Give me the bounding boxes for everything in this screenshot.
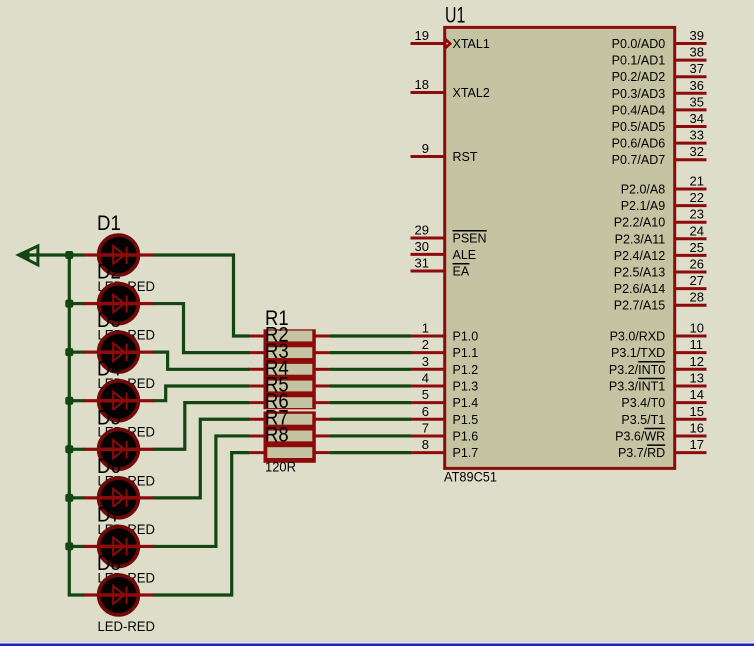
pin 32 (P0.7/AD7) stub — [675, 158, 707, 161]
svg-text:P0.3/AD3: P0.3/AD3 — [612, 87, 666, 101]
EA overline — [453, 263, 470, 265]
svg-text:P0.2/AD2: P0.2/AD2 — [612, 70, 666, 84]
svg-text:38: 38 — [690, 45, 704, 60]
wire bus to LED D6 — [69, 496, 84, 499]
pin 2 (P1.1) stub — [411, 351, 445, 354]
resistor R4 right lead — [315, 384, 331, 387]
svg-text:P1.4: P1.4 — [453, 396, 479, 410]
svg-text:P0.4/AD4: P0.4/AD4 — [612, 103, 666, 117]
junction node on bus at D7 — [65, 542, 73, 550]
svg-text:34: 34 — [690, 111, 704, 126]
svg-text:P2.3/A11: P2.3/A11 — [615, 232, 666, 246]
LED D7 symbol — [83, 527, 154, 567]
wire LED D7 cathode to resistor R7 — [153, 436, 249, 546]
svg-text:4: 4 — [422, 370, 429, 385]
svg-text:35: 35 — [690, 94, 704, 109]
svg-text:16: 16 — [690, 420, 704, 435]
svg-text:P1.1: P1.1 — [453, 346, 479, 360]
svg-text:33: 33 — [690, 128, 704, 143]
svg-text:8: 8 — [422, 437, 429, 452]
wire LED D2 cathode to resistor R2 — [153, 304, 249, 353]
svg-text:21: 21 — [690, 174, 704, 189]
svg-text:12: 12 — [690, 354, 704, 369]
RD overline — [647, 444, 665, 446]
junction node on bus at D5 — [65, 445, 73, 453]
pin 33 (P0.6/AD6) stub — [675, 142, 707, 145]
pin 16 (P3.6/WR) stub — [675, 434, 707, 437]
wire resistor R6 to pin P1.5 — [330, 418, 411, 421]
svg-text:XTAL2: XTAL2 — [453, 86, 490, 100]
resistor R6 left lead — [248, 418, 265, 421]
svg-text:P1.7: P1.7 — [453, 446, 479, 460]
svg-text:RST: RST — [453, 150, 478, 164]
resistor R5 right lead — [315, 401, 331, 404]
left terminal arrow — [19, 246, 38, 265]
wire bus to LED D3 — [69, 351, 84, 354]
resistor R2 body interior — [267, 347, 312, 358]
LED D2 symbol — [83, 284, 154, 324]
LED D1 symbol — [83, 235, 154, 275]
svg-text:D4: D4 — [97, 357, 121, 381]
svg-text:D5: D5 — [97, 405, 121, 429]
pin 3 (P1.2) stub — [411, 368, 445, 371]
svg-text:P3.0/RXD: P3.0/RXD — [610, 330, 666, 344]
pin 26 (P2.5/A13) stub — [675, 271, 707, 274]
pin 18 (XTAL2) stub — [411, 91, 445, 94]
window bottom blue border — [0, 644, 754, 646]
svg-text:PSEN: PSEN — [453, 232, 487, 246]
svg-text:P1.5: P1.5 — [453, 413, 479, 427]
svg-text:19: 19 — [415, 28, 429, 43]
svg-text:11: 11 — [690, 337, 704, 352]
wire resistor R2 to pin P1.1 — [330, 351, 411, 354]
svg-text:P3.1/TXD: P3.1/TXD — [611, 346, 665, 360]
pin 28 (P2.7/A15) stub — [675, 304, 707, 307]
INT1 overline — [638, 377, 665, 379]
pin 1 (P1.0) stub — [411, 335, 445, 338]
svg-text:P0.5/AD5: P0.5/AD5 — [612, 120, 666, 134]
wire LED D1 cathode to resistor R1 — [153, 255, 249, 336]
svg-text:P1.0: P1.0 — [453, 330, 479, 344]
pin 31 (EA) stub — [411, 270, 445, 273]
pin 38 (P0.1/AD1) stub — [675, 59, 707, 62]
anode bus vertical wire — [68, 255, 71, 595]
svg-text:32: 32 — [690, 144, 704, 159]
svg-text:P2.0/A8: P2.0/A8 — [621, 183, 666, 197]
svg-text:P2.5/A13: P2.5/A13 — [614, 266, 665, 280]
pin 34 (P0.5/AD5) stub — [675, 125, 707, 128]
svg-text:15: 15 — [690, 404, 704, 419]
pin 13 (P3.3/INT1) stub — [675, 384, 707, 387]
LED D4 symbol — [83, 381, 154, 421]
svg-text:P0.7/AD7: P0.7/AD7 — [612, 153, 666, 167]
svg-text:P1.3: P1.3 — [453, 379, 479, 393]
resistor R6 body interior — [267, 414, 312, 425]
svg-text:26: 26 — [690, 257, 704, 272]
pin 5 (P1.4) stub — [411, 401, 445, 404]
resistor R7 left lead — [248, 434, 265, 437]
wire resistor R1 to pin P1.0 — [330, 334, 411, 337]
pin 6 (P1.5) stub — [411, 418, 445, 421]
svg-text:39: 39 — [690, 28, 704, 43]
svg-text:13: 13 — [690, 370, 704, 385]
pin 8 (P1.7) stub — [411, 451, 445, 454]
LED D3 symbol — [83, 332, 154, 372]
svg-text:P1.6: P1.6 — [453, 429, 479, 443]
pin 12 (P3.2/INT0) stub — [675, 368, 707, 371]
svg-text:P3.4/T0: P3.4/T0 — [621, 396, 665, 410]
svg-text:P2.1/A9: P2.1/A9 — [621, 199, 666, 213]
pin 29 (PSEN) stub — [411, 237, 445, 240]
wire LED D6 cathode to resistor R6 — [153, 419, 249, 498]
wire LED D4 cathode to resistor R4 — [153, 386, 249, 401]
svg-text:30: 30 — [415, 239, 429, 254]
resistor R5 left lead — [248, 401, 265, 404]
resistor pack R1-R5 outer body — [264, 329, 316, 409]
resistor R2 left lead — [248, 351, 265, 354]
pin 15 (P3.5/T1) stub — [675, 418, 707, 421]
resistor R3 right lead — [315, 368, 331, 371]
pin 9 (RST) stub — [411, 155, 445, 158]
svg-text:1: 1 — [422, 321, 429, 336]
svg-text:P2.7/A15: P2.7/A15 — [614, 299, 665, 313]
pin 19 (XTAL1) stub — [411, 42, 445, 45]
svg-text:D2: D2 — [97, 260, 121, 284]
resistor R4 body interior — [267, 381, 312, 392]
svg-text:17: 17 — [690, 437, 704, 452]
svg-text:10: 10 — [690, 321, 704, 336]
terminal arrow wire — [20, 253, 84, 256]
svg-text:27: 27 — [690, 273, 704, 288]
wire bus to LED D7 — [69, 545, 84, 548]
svg-text:29: 29 — [415, 223, 429, 238]
svg-text:2: 2 — [422, 337, 429, 352]
wire LED D3 cathode to resistor R3 — [153, 352, 249, 369]
pin 14 (P3.4/T0) stub — [675, 401, 707, 404]
pin 39 (P0.0/AD0) stub — [675, 42, 707, 45]
wire resistor R8 to pin P1.7 — [330, 451, 411, 454]
svg-text:P3.5/T1: P3.5/T1 — [621, 413, 665, 427]
wire bus to LED D4 — [69, 399, 84, 402]
junction node on bus at D4 — [65, 397, 73, 405]
resistor R1 body interior — [267, 331, 312, 342]
pin 21 (P2.0/A8) stub — [675, 188, 707, 191]
resistor R5 body interior — [267, 397, 312, 408]
svg-text:ALE: ALE — [453, 248, 477, 262]
junction node on bus at D2 — [65, 300, 73, 308]
svg-text:P0.1/AD1: P0.1/AD1 — [612, 54, 666, 68]
svg-text:37: 37 — [690, 61, 704, 76]
pin 35 (P0.4/AD4) stub — [675, 108, 707, 111]
IC U1 body (AT89C51) — [445, 27, 675, 468]
svg-text:120R: 120R — [265, 460, 296, 475]
junction node on bus at D1 — [65, 251, 73, 259]
XTAL1 clock arrow marker — [446, 38, 452, 49]
resistor R8 body interior — [267, 447, 312, 458]
svg-text:P3.7/RD: P3.7/RD — [618, 446, 665, 460]
resistor R4 left lead — [248, 384, 265, 387]
svg-text:25: 25 — [690, 240, 704, 255]
svg-text:22: 22 — [690, 190, 704, 205]
svg-text:U1: U1 — [445, 3, 465, 28]
pin 25 (P2.4/A12) stub — [675, 254, 707, 257]
wire bus to LED D5 — [69, 448, 84, 451]
svg-text:23: 23 — [690, 207, 704, 222]
svg-text:9: 9 — [422, 141, 429, 156]
svg-text:31: 31 — [415, 256, 429, 271]
svg-text:P3.6/WR: P3.6/WR — [615, 429, 665, 443]
svg-text:P0.0/AD0: P0.0/AD0 — [612, 37, 666, 51]
svg-text:LED-RED: LED-RED — [98, 619, 156, 634]
junction node on bus at D3 — [65, 348, 73, 356]
wire bus to LED D2 — [69, 302, 84, 305]
svg-text:14: 14 — [690, 387, 704, 402]
pin 22 (P2.1/A9) stub — [675, 204, 707, 207]
wire resistor R4 to pin P1.3 — [330, 384, 411, 387]
resistor R1 left lead — [248, 335, 265, 338]
terminal arrow tip fill — [19, 250, 30, 260]
svg-text:P3.3/INT1: P3.3/INT1 — [609, 379, 665, 393]
svg-text:7: 7 — [422, 420, 429, 435]
svg-text:P3.2/INT0: P3.2/INT0 — [609, 363, 665, 377]
INT0 overline — [638, 361, 665, 363]
svg-text:D3: D3 — [97, 308, 121, 332]
resistor R7 body interior — [267, 431, 312, 442]
svg-text:18: 18 — [415, 77, 429, 92]
resistor R7 right lead — [315, 434, 331, 437]
resistor R6 right lead — [315, 418, 331, 421]
LED D8 symbol — [83, 575, 154, 615]
svg-text:36: 36 — [690, 78, 704, 93]
pin 36 (P0.3/AD3) stub — [675, 92, 707, 95]
pin 27 (P2.6/A14) stub — [675, 287, 707, 290]
pin 11 (P3.1/TXD) stub — [675, 351, 707, 354]
svg-text:D8: D8 — [97, 551, 121, 575]
pin 10 (P3.0/RXD) stub — [675, 335, 707, 338]
resistor pack R6-R8 outer body — [264, 411, 316, 462]
pin 7 (P1.6) stub — [411, 434, 445, 437]
wire LED D5 cathode to resistor R5 — [153, 403, 249, 450]
svg-text:EA: EA — [453, 265, 470, 279]
pin 4 (P1.3) stub — [411, 384, 445, 387]
resistor R1 right lead — [315, 335, 331, 338]
wire bus to LED D8 — [68, 593, 84, 596]
resistor R2 right lead — [315, 351, 331, 354]
svg-text:R8: R8 — [265, 422, 289, 446]
junction node on bus at D6 — [65, 494, 73, 502]
svg-text:D7: D7 — [97, 502, 121, 526]
svg-text:P1.2: P1.2 — [453, 363, 479, 377]
LED D5 symbol — [83, 429, 154, 469]
svg-text:24: 24 — [690, 223, 704, 238]
wire resistor R5 to pin P1.4 — [330, 401, 411, 404]
LED D6 symbol — [83, 478, 154, 518]
pin 23 (P2.2/A10) stub — [675, 221, 707, 224]
svg-text:XTAL1: XTAL1 — [453, 37, 490, 51]
wire LED D8 cathode to resistor R8 — [153, 453, 249, 595]
pin 30 (ALE) stub — [411, 253, 445, 256]
svg-text:D1: D1 — [97, 211, 121, 235]
resistor R8 right lead — [315, 451, 331, 454]
svg-text:P2.6/A14: P2.6/A14 — [614, 282, 665, 296]
resistor R3 body interior — [267, 364, 312, 375]
resistor R8 left lead — [248, 451, 265, 454]
resistor R3 left lead — [248, 368, 265, 371]
pin 37 (P0.2/AD2) stub — [675, 75, 707, 78]
status bar light strip — [0, 642, 754, 644]
svg-text:28: 28 — [690, 290, 704, 305]
svg-text:3: 3 — [422, 354, 429, 369]
pin 17 (P3.7/RD) stub — [675, 451, 707, 454]
WR overline — [644, 427, 665, 429]
svg-text:6: 6 — [422, 404, 429, 419]
svg-text:5: 5 — [422, 387, 429, 402]
wire resistor R7 to pin P1.6 — [330, 434, 411, 437]
svg-text:P2.4/A12: P2.4/A12 — [614, 249, 665, 263]
pin 24 (P2.3/A11) stub — [675, 237, 707, 240]
svg-text:AT89C51: AT89C51 — [444, 469, 497, 484]
svg-text:D6: D6 — [97, 454, 121, 478]
wire resistor R3 to pin P1.2 — [330, 368, 411, 371]
svg-text:P0.6/AD6: P0.6/AD6 — [612, 137, 666, 151]
svg-text:P2.2/A10: P2.2/A10 — [614, 216, 665, 230]
PSEN overline — [453, 230, 487, 232]
